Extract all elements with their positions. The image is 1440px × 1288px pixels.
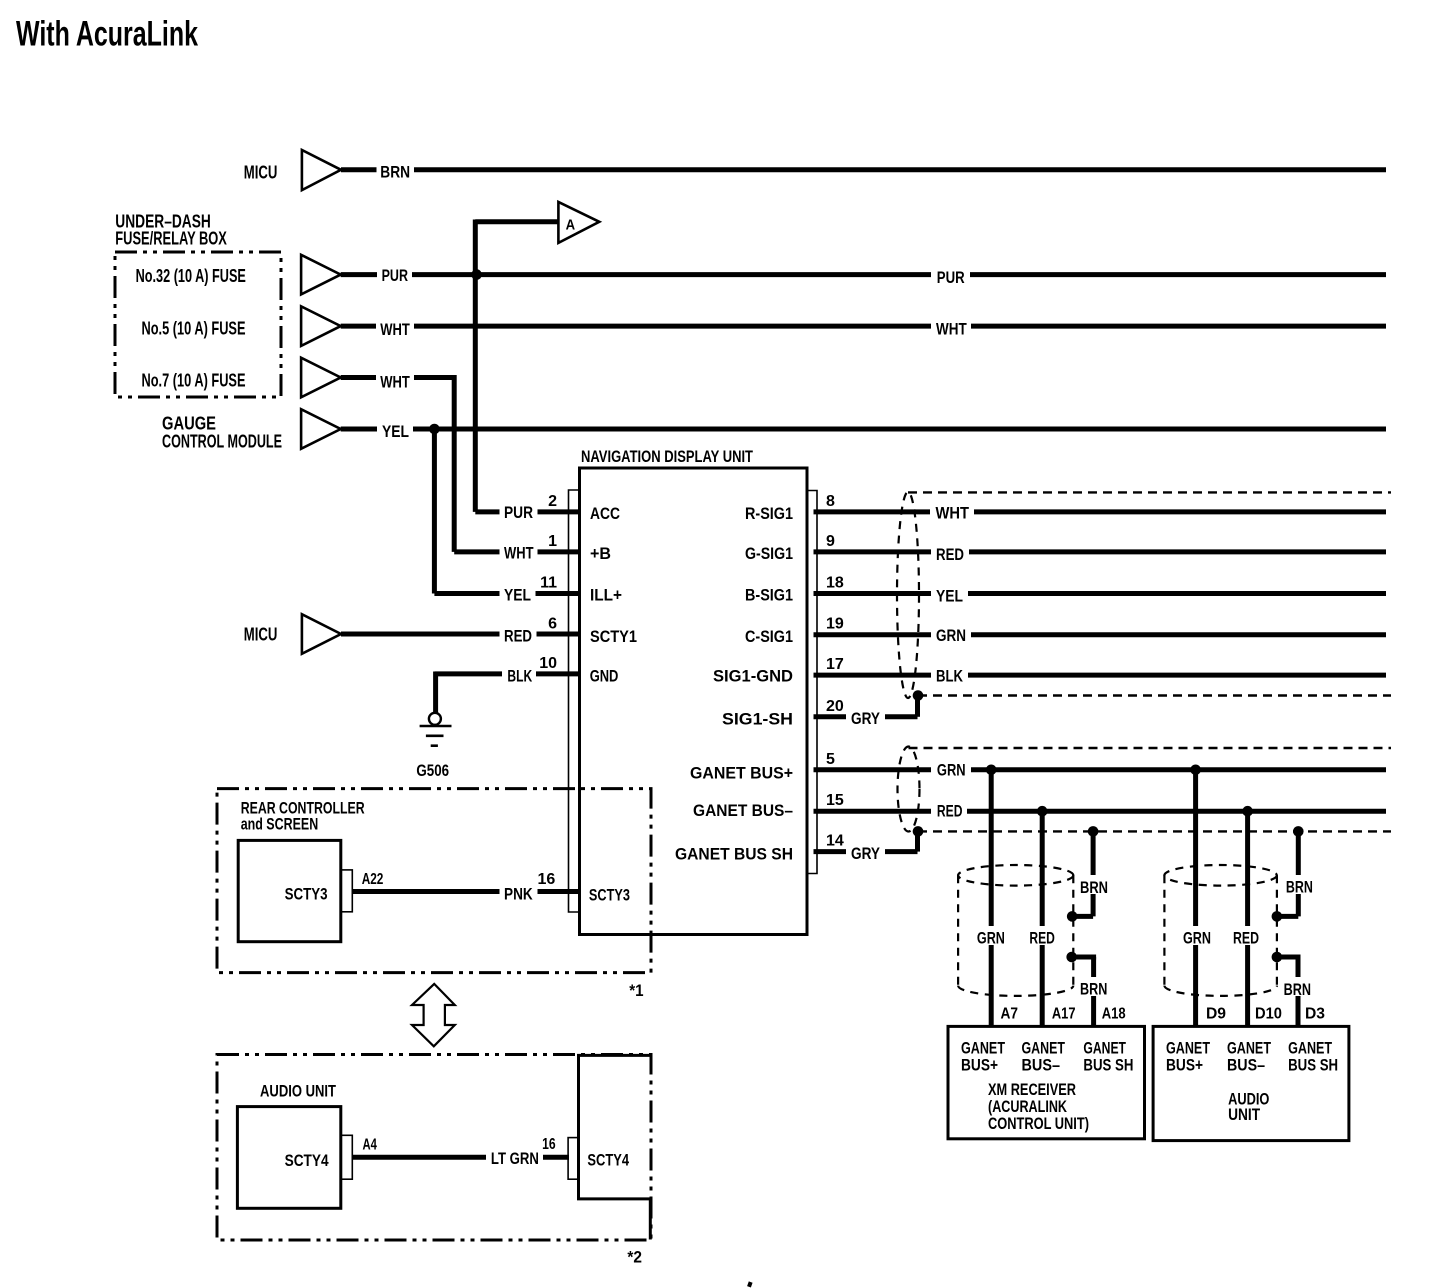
- svg-text:FUSE/RELAY BOX: FUSE/RELAY BOX: [115, 229, 227, 249]
- svg-text:GANET BUS+: GANET BUS+: [690, 764, 793, 783]
- svg-text:AUDIO UNIT: AUDIO UNIT: [260, 1081, 336, 1100]
- svg-text:WHT: WHT: [380, 372, 410, 391]
- svg-text:GRY: GRY: [851, 709, 881, 728]
- svg-text:BUS–: BUS–: [1227, 1056, 1265, 1075]
- svg-text:RED: RED: [936, 545, 964, 564]
- svg-text:With AcuraLink: With AcuraLink: [16, 15, 198, 54]
- svg-text:YEL: YEL: [936, 587, 963, 606]
- svg-text:8: 8: [826, 493, 835, 510]
- svg-text:GANET BUS SH: GANET BUS SH: [675, 845, 793, 864]
- svg-text:9: 9: [826, 533, 835, 550]
- svg-text:BRN: BRN: [1080, 878, 1108, 897]
- svg-text:SCTY3: SCTY3: [285, 884, 328, 903]
- svg-text:10: 10: [539, 655, 557, 672]
- svg-text:GANET BUS–: GANET BUS–: [693, 801, 793, 820]
- svg-text:BUS+: BUS+: [1166, 1056, 1203, 1075]
- svg-text:LT GRN: LT GRN: [491, 1149, 539, 1168]
- svg-text:NAVIGATION DISPLAY UNIT: NAVIGATION DISPLAY UNIT: [581, 447, 753, 466]
- svg-text:A18: A18: [1102, 1006, 1126, 1023]
- svg-text:YEL: YEL: [382, 422, 409, 441]
- svg-text:SIG1-GND: SIG1-GND: [713, 667, 793, 686]
- svg-text:GRN: GRN: [977, 928, 1005, 947]
- svg-text:RED: RED: [937, 802, 963, 821]
- svg-text:B-SIG1: B-SIG1: [745, 586, 793, 605]
- svg-text:A4: A4: [363, 1137, 377, 1154]
- svg-text:MICU: MICU: [244, 625, 278, 645]
- svg-text:1: 1: [548, 533, 557, 550]
- svg-text:GRN: GRN: [936, 626, 966, 645]
- svg-text:SIG1-SH: SIG1-SH: [722, 710, 793, 729]
- svg-text:UNIT: UNIT: [1228, 1105, 1260, 1124]
- svg-text:A17: A17: [1052, 1006, 1076, 1023]
- svg-text:5: 5: [826, 751, 835, 768]
- svg-text:CONTROL MODULE: CONTROL MODULE: [162, 432, 282, 452]
- svg-text:RED: RED: [1029, 928, 1055, 947]
- svg-text:PNK: PNK: [504, 884, 533, 903]
- svg-text:6: 6: [548, 616, 557, 633]
- svg-text:*1: *1: [629, 981, 643, 1000]
- svg-text:20: 20: [826, 698, 844, 715]
- svg-text:GRN: GRN: [937, 761, 966, 780]
- svg-text:GND: GND: [590, 666, 619, 685]
- svg-text:PUR: PUR: [382, 266, 408, 285]
- svg-text:16: 16: [542, 1136, 556, 1153]
- svg-text:No.5 (10 A) FUSE: No.5 (10 A) FUSE: [142, 319, 246, 339]
- svg-text:16: 16: [538, 871, 556, 888]
- svg-text:WHT: WHT: [504, 544, 534, 563]
- svg-text:SCTY3: SCTY3: [589, 886, 630, 905]
- svg-text:SCTY1: SCTY1: [590, 627, 637, 646]
- svg-text:BRN: BRN: [1284, 980, 1311, 999]
- svg-text:GRN: GRN: [1183, 928, 1211, 947]
- svg-text:SCTY4: SCTY4: [285, 1151, 329, 1170]
- svg-text:G506: G506: [416, 761, 449, 780]
- svg-text:BLK: BLK: [936, 667, 964, 686]
- svg-text:*2: *2: [627, 1247, 642, 1266]
- svg-text:GRY: GRY: [851, 844, 881, 863]
- svg-text:19: 19: [826, 616, 844, 633]
- svg-text:15: 15: [826, 792, 844, 809]
- svg-text:D10: D10: [1255, 1006, 1282, 1023]
- svg-text:C-SIG1: C-SIG1: [745, 627, 793, 646]
- svg-text:and SCREEN: and SCREEN: [241, 815, 319, 834]
- svg-text:+B: +B: [590, 544, 611, 563]
- svg-text:ILL+: ILL+: [590, 586, 622, 605]
- svg-text:YEL: YEL: [504, 586, 531, 605]
- svg-text:GAUGE: GAUGE: [162, 414, 216, 434]
- svg-text:WHT: WHT: [936, 504, 970, 523]
- svg-text:A: A: [566, 217, 576, 234]
- svg-text:ACC: ACC: [590, 504, 620, 523]
- svg-text:BRN: BRN: [1286, 878, 1313, 897]
- svg-text:No.32 (10 A) FUSE: No.32 (10 A) FUSE: [136, 266, 246, 286]
- svg-text:SCTY4: SCTY4: [587, 1151, 629, 1170]
- svg-text:2: 2: [548, 493, 557, 510]
- svg-text:BUS SH: BUS SH: [1083, 1056, 1133, 1075]
- svg-text:R-SIG1: R-SIG1: [745, 504, 793, 523]
- svg-text:D9: D9: [1206, 1006, 1226, 1023]
- svg-text:PUR: PUR: [937, 268, 965, 287]
- svg-text:RED: RED: [1233, 928, 1259, 947]
- svg-text:BRN: BRN: [1080, 980, 1107, 999]
- svg-text:17: 17: [826, 656, 844, 673]
- svg-text:WHT: WHT: [380, 320, 410, 339]
- svg-text:BUS SH: BUS SH: [1288, 1056, 1338, 1075]
- svg-text:BLK: BLK: [507, 666, 532, 685]
- svg-text:A7: A7: [1001, 1006, 1019, 1023]
- svg-text:CONTROL UNIT): CONTROL UNIT): [988, 1114, 1089, 1133]
- svg-text:BUS–: BUS–: [1022, 1056, 1061, 1075]
- svg-text:RED: RED: [504, 627, 532, 646]
- svg-text:No.7 (10 A) FUSE: No.7 (10 A) FUSE: [142, 371, 246, 391]
- svg-text:11: 11: [540, 575, 557, 592]
- svg-text:PUR: PUR: [504, 503, 533, 522]
- svg-text:18: 18: [826, 575, 844, 592]
- svg-text:BUS+: BUS+: [961, 1056, 998, 1075]
- svg-text:A22: A22: [362, 871, 384, 888]
- svg-text:BRN: BRN: [380, 163, 410, 182]
- svg-text:WHT: WHT: [936, 320, 967, 339]
- svg-text:14: 14: [826, 833, 844, 850]
- svg-text:MICU: MICU: [244, 162, 278, 182]
- svg-text:D3: D3: [1305, 1006, 1325, 1023]
- svg-text:G-SIG1: G-SIG1: [745, 544, 793, 563]
